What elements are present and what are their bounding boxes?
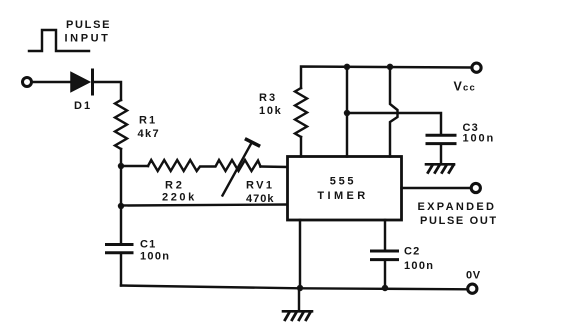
capacitor C2	[372, 251, 398, 260]
node C junction dot on top rail	[344, 64, 350, 70]
svg-text:R2: R2	[165, 180, 185, 192]
diode D1	[71, 70, 93, 94]
svg-text:R3: R3	[259, 92, 277, 104]
Vcc terminal	[472, 63, 481, 72]
wire node B down to C1	[120, 206, 122, 243]
resistor R1	[115, 100, 127, 149]
wire diode to R1 top corner	[94, 82, 121, 100]
node F junction dot on bottom rail	[297, 285, 303, 291]
expanded pulse out terminal	[471, 183, 480, 192]
svg-text:555: 555	[330, 176, 356, 188]
0V terminal	[468, 284, 477, 293]
svg-text:10k: 10k	[259, 105, 282, 117]
resistor R3	[295, 88, 307, 137]
svg-text:EXPANDED: EXPANDED	[418, 201, 497, 213]
wire top rail to 555 top pin	[346, 67, 348, 157]
node D junction dot	[344, 110, 350, 116]
svg-text:470k: 470k	[246, 193, 274, 205]
node E junction dot on top rail	[387, 64, 393, 70]
svg-text:RV1: RV1	[246, 180, 274, 192]
svg-text:Vcc: Vcc	[454, 80, 477, 94]
wire with hop to 555 top pin	[390, 67, 398, 157]
wire RV1 to 555 pin	[261, 165, 288, 168]
svg-text:D1: D1	[74, 100, 92, 112]
resistor R2 and potentiometer RV1 zigzag	[148, 160, 261, 171]
svg-text:C2: C2	[404, 246, 420, 258]
svg-text:100n: 100n	[463, 133, 496, 145]
wire node A to R2	[121, 165, 148, 167]
output wire 555 to terminal	[402, 187, 471, 189]
wire 555 bottom pin to ground node	[299, 220, 301, 288]
svg-text:220k: 220k	[162, 192, 197, 204]
capacitor C3	[427, 135, 455, 143]
wire input terminal to diode	[32, 81, 72, 83]
ground bottom centre	[283, 311, 312, 320]
wire 555 bottom to C2	[384, 220, 386, 250]
wire node D to C3	[347, 113, 441, 134]
svg-text:TIMER: TIMER	[317, 190, 368, 202]
svg-text:4k7: 4k7	[138, 128, 161, 140]
svg-text:100n: 100n	[140, 251, 170, 263]
wire R1 bottom to node A	[120, 149, 122, 166]
wire C3 to ground	[440, 145, 442, 164]
555 timer U1 box	[288, 157, 402, 221]
wire node A to node B	[120, 166, 122, 206]
pulse input waveform symbol	[29, 30, 89, 51]
RV1 wiper arrow	[223, 140, 259, 196]
input terminal	[23, 78, 32, 87]
wire node B to 555 lower pin	[121, 205, 287, 206]
svg-text:PULSE OUT: PULSE OUT	[420, 215, 498, 227]
wire node F to ground	[298, 288, 300, 311]
svg-text:PULSE: PULSE	[66, 19, 111, 31]
wire C2 to bottom rail	[384, 261, 386, 288]
ground under C3	[426, 164, 454, 172]
svg-text:C1: C1	[140, 239, 156, 251]
svg-text:0V: 0V	[466, 270, 481, 282]
svg-text:INPUT: INPUT	[65, 33, 111, 45]
node G junction dot	[382, 285, 388, 291]
bottom rail wire	[121, 286, 468, 290]
top rail wire	[301, 67, 471, 89]
svg-text:R1: R1	[139, 115, 157, 127]
node A junction dot	[118, 163, 124, 169]
wire R3 bottom to 555 top	[300, 137, 302, 157]
node B junction dot	[118, 203, 124, 209]
svg-text:100n: 100n	[404, 260, 434, 272]
capacitor C1	[107, 245, 133, 253]
wire C1 to bottom rail	[120, 254, 122, 286]
